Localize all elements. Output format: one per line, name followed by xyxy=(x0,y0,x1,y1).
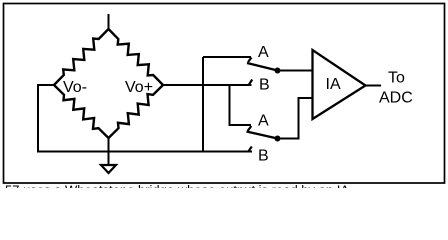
svg-text:Vo-: Vo- xyxy=(63,79,87,96)
svg-text:B: B xyxy=(259,77,270,94)
svg-text:Vo+: Vo+ xyxy=(125,79,153,96)
svg-text:ADC: ADC xyxy=(379,90,413,107)
svg-text:IA: IA xyxy=(326,76,341,93)
svg-text:To: To xyxy=(388,70,405,87)
svg-text:B: B xyxy=(258,148,269,165)
svg-text:57 uses a Wheatstone bridge wh: 57 uses a Wheatstone bridge whose output… xyxy=(5,183,353,188)
svg-text:A: A xyxy=(258,44,269,61)
svg-text:A: A xyxy=(258,113,269,130)
